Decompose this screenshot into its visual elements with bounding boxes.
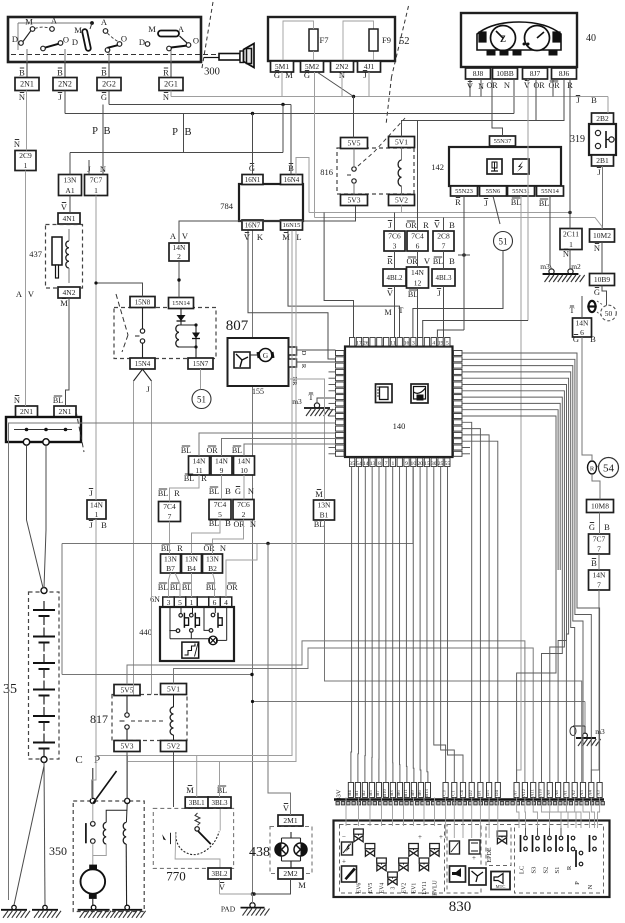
svg-text:9: 9 (220, 466, 224, 475)
svg-text:55N23: 55N23 (455, 188, 473, 195)
wire: 7C4-6 top (417, 121, 419, 232)
wire: diagonal to far left ground (14, 766, 44, 905)
svg-text:BL: BL (182, 583, 192, 592)
770 internal wires (175, 832, 220, 869)
connector 2G2 (97, 62, 121, 102)
connector 13N B1 (314, 489, 335, 529)
svg-text:B: B (591, 558, 597, 568)
svg-text:B6: B6 (417, 790, 422, 796)
svg-text:N: N (594, 243, 600, 253)
svg-text:BL: BL (184, 474, 194, 483)
ground bottom left 2 (32, 905, 61, 918)
svg-text:B: B (101, 520, 107, 530)
pump relay icon (450, 841, 460, 854)
wire: 15N7 to node 51 (200, 369, 202, 390)
svg-text:1: 1 (392, 461, 395, 467)
350 coil 1 (103, 822, 106, 844)
switch contact set 1 (12, 16, 69, 51)
wire: 2G1 to light bus (170, 91, 172, 97)
svg-text:2C8: 2C8 (437, 232, 450, 241)
830 switch sub-box (515, 825, 604, 894)
wire: battery 35 bottom to ground (44, 763, 45, 906)
svg-text:N: N (587, 884, 594, 889)
svg-text:770: 770 (166, 869, 186, 884)
svg-text:B: B (103, 126, 110, 137)
svg-text:7C4: 7C4 (163, 502, 176, 511)
svg-text:6: 6 (213, 598, 217, 607)
svg-text:B: B (604, 522, 610, 532)
svg-text:P: P (172, 127, 178, 138)
350 switch (90, 798, 95, 803)
440 blower resistor icon (182, 642, 199, 658)
svg-text:G: G (594, 287, 600, 297)
ECU bottom fan to 830 B-block (350, 467, 353, 783)
wire: fork right down (151, 381, 153, 695)
svg-text:+: + (418, 833, 422, 841)
svg-text:2: 2 (242, 510, 246, 519)
wire: 7C4-7 to 13N-B7 (169, 522, 171, 555)
svg-text:EV5: EV5 (368, 883, 374, 894)
svg-text:OR: OR (226, 583, 238, 592)
switch N (593, 836, 597, 840)
svg-text:B: B (449, 256, 455, 266)
wire: 14N-7 down to 830 A4 (591, 590, 599, 783)
svg-text:26: 26 (363, 340, 369, 346)
svg-text:1: 1 (95, 510, 99, 519)
svg-text:G: G (274, 70, 280, 80)
wire: ECU left to 14N-9 (222, 439, 336, 457)
relay 817 contact (125, 713, 129, 717)
svg-text:A9: A9 (546, 789, 551, 795)
350 coil 2 (123, 822, 126, 844)
svg-text:14N: 14N (593, 571, 607, 580)
svg-text:D: D (12, 34, 18, 44)
svg-text:35: 35 (349, 461, 355, 467)
icon lightning (513, 159, 529, 174)
svg-text:A1: A1 (65, 186, 74, 195)
connector 55N23 (451, 186, 478, 196)
lamp unit 438 (249, 803, 312, 890)
svg-text:817: 817 (90, 712, 108, 726)
wire: 14N-1 down to CP switch (92, 519, 97, 799)
svg-text:4N2: 4N2 (63, 288, 76, 297)
svg-text:B13: B13 (424, 788, 429, 796)
svg-text:N: N (504, 80, 510, 90)
wire: 16N15-M down to bus B (288, 231, 400, 338)
svg-text:8J8: 8J8 (473, 69, 484, 78)
bus543 left end down to bus674 (61, 544, 63, 675)
svg-text:807: 807 (226, 318, 249, 334)
438 lamp left (275, 843, 288, 856)
svg-text:B5: B5 (368, 790, 373, 796)
svg-text:13N: 13N (64, 175, 78, 184)
wire: 14N-11 to 7C4-7 (170, 475, 200, 502)
830 middle sub-box (447, 825, 486, 894)
svg-text:M: M (148, 24, 156, 34)
wire: 5V3 817 to 350 (126, 752, 128, 800)
svg-text:B: B (225, 486, 231, 496)
ECU bottom pins 12-14 to C-block (434, 467, 446, 783)
svg-text:R: R (566, 865, 573, 870)
switch contact set 2 (72, 17, 127, 52)
svg-text:Z: Z (500, 34, 506, 44)
light bus y=217.5 to 10M2 (315, 218, 603, 230)
svg-text:16N4: 16N4 (284, 176, 300, 184)
connector 14N 10 (232, 446, 255, 475)
junction (281, 103, 284, 106)
switch P (579, 851, 583, 855)
svg-text:V: V (434, 220, 441, 230)
svg-text:G: G (235, 486, 241, 496)
fuse F9 (369, 29, 378, 51)
key symbol 300 (202, 2, 255, 78)
connector 7C7 1 (85, 164, 108, 196)
svg-text:55N14: 55N14 (541, 188, 559, 195)
switch LC (524, 836, 528, 840)
wire: 16N15-M down to 3BL1 (96, 231, 292, 756)
svg-text:2: 2 (177, 252, 181, 261)
svg-text:BL: BL (539, 199, 549, 208)
relay 807 contact (140, 329, 144, 333)
svg-text:A2: A2 (571, 789, 576, 795)
svg-text:C3: C3 (442, 790, 447, 796)
svg-text:A12: A12 (521, 788, 526, 797)
wire: 14N6 down right side to sensor 54 (582, 337, 592, 461)
svg-text:830: 830 (449, 899, 472, 915)
svg-text:2B1: 2B1 (596, 156, 609, 165)
fusebox internal wires (283, 21, 314, 61)
svg-text:R: R (174, 488, 180, 498)
ground m3 m2 (540, 262, 584, 282)
svg-text:EV4: EV4 (380, 883, 386, 894)
indicator lights (479, 32, 486, 42)
svg-text:55N6: 55N6 (486, 188, 501, 195)
svg-text:M: M (25, 17, 33, 27)
svg-text:51: 51 (197, 395, 206, 405)
connector 2C8 7 (433, 220, 455, 251)
svg-text:N: N (14, 139, 20, 149)
wire: 155-NR to 13N-B1 (289, 379, 325, 500)
connector 4N2 (58, 287, 80, 308)
svg-text:G: G (101, 92, 107, 102)
connector 2N2 (331, 61, 354, 72)
svg-text:2N1: 2N1 (20, 407, 33, 416)
svg-text:G: G (589, 522, 595, 532)
icon module (411, 384, 428, 403)
svg-text:A7: A7 (513, 789, 518, 795)
sensor node B 54 (588, 458, 619, 478)
svg-text:19: 19 (438, 340, 444, 346)
830 solenoid valves EV6..EVLU (354, 829, 443, 896)
wire: 7C6-3 top to bus212 (394, 213, 396, 232)
ground under 350 motor (78, 909, 110, 911)
svg-text:LC: LC (519, 866, 526, 874)
svg-text:4N1: 4N1 (63, 214, 76, 223)
svg-text:A11: A11 (529, 788, 534, 796)
ECU 140 bottom pins (349, 458, 450, 467)
wire: bus to 16N1 (252, 114, 254, 175)
fuse box 52 (268, 6, 410, 125)
tachometer gauge (525, 26, 550, 51)
connector 8J7 (523, 68, 548, 79)
wire: 16N7-K down to bus C (248, 231, 336, 360)
connector 10M8 (587, 500, 614, 513)
svg-text:5V1: 5V1 (167, 685, 180, 694)
svg-text:B: B (449, 220, 455, 230)
wire: 13N-A1 top (69, 153, 71, 175)
bus y=104.5 (109, 104, 291, 106)
wire: 16N4 branch to bus 212.5 (296, 158, 309, 213)
svg-text:A: A (101, 17, 108, 27)
svg-text:3: 3 (412, 340, 415, 346)
relay 816 coil (398, 160, 401, 186)
svg-text:15N7: 15N7 (193, 360, 209, 368)
svg-text:B7: B7 (375, 790, 380, 796)
770 wiper arm (195, 827, 199, 831)
svg-text:11: 11 (390, 340, 396, 346)
wire: 7C7-1 down to 14N-1 (95, 196, 97, 501)
wire: 55N31 down to 830 A7 (517, 196, 521, 783)
svg-text:5V5: 5V5 (121, 686, 134, 695)
wire: 14N12 to ECU (417, 288, 419, 338)
svg-text:5: 5 (218, 510, 222, 519)
relay 817 (90, 684, 187, 752)
svg-text:BL: BL (158, 583, 168, 592)
wire: 5V2 817 down to 770 (173, 752, 175, 808)
svg-text:N: N (14, 395, 20, 405)
wire: 2N2 down to bus (64, 91, 66, 114)
wire: 7C7-1 tops (88, 160, 90, 175)
svg-text:13N: 13N (206, 554, 220, 563)
svg-text:10B9: 10B9 (594, 275, 611, 284)
svg-text:10BB: 10BB (496, 69, 514, 78)
svg-text:V: V (244, 232, 251, 242)
light bus y=96.5 (171, 96, 608, 98)
fuse F7 (309, 29, 318, 51)
relay 807 diode 2 (195, 325, 197, 358)
svg-text:1: 1 (569, 240, 573, 249)
svg-text:P: P (574, 881, 581, 885)
connector 7C6 3 (384, 220, 405, 251)
fan motor unit 155 (228, 338, 308, 396)
component 319 (570, 95, 616, 229)
svg-text:R: R (455, 197, 461, 207)
junction (251, 700, 254, 703)
junction (251, 892, 255, 896)
connector 8J8 (466, 68, 491, 79)
svg-text:A: A (170, 231, 177, 241)
svg-text:2G2: 2G2 (102, 80, 116, 89)
svg-text:BL: BL (511, 198, 521, 207)
svg-text:BL: BL (232, 446, 242, 455)
830 EPDE sub-box (486, 825, 511, 866)
relay 807 diode top (180, 309, 182, 325)
svg-text:52: 52 (399, 36, 410, 47)
connector 4J1 (358, 61, 381, 72)
svg-text:OR: OR (406, 257, 418, 266)
wire: 15N4 fork J (134, 369, 143, 381)
svg-text:12: 12 (414, 278, 422, 287)
svg-text:40: 40 (586, 33, 596, 44)
svg-text:R: R (387, 256, 393, 266)
svg-text:7: 7 (168, 512, 172, 521)
junction block with connectors 2N1 2N1 (6, 395, 84, 452)
svg-text:7C7: 7C7 (593, 535, 606, 544)
ECU right pins 11-16 to C-block D pins (462, 422, 472, 782)
svg-text:N: N (248, 486, 254, 496)
switch contact set 3 (139, 24, 199, 51)
wire: to PAD ground (252, 894, 254, 903)
svg-text:300: 300 (204, 67, 220, 78)
svg-text:13N: 13N (318, 501, 332, 510)
svg-text:3: 3 (391, 886, 397, 889)
svg-text:35: 35 (3, 682, 17, 697)
svg-text:A5: A5 (579, 789, 584, 795)
svg-text:D2: D2 (468, 789, 473, 795)
svg-text:1: 1 (24, 161, 28, 170)
connector 14N 1 (87, 488, 107, 530)
svg-text:13: 13 (370, 461, 376, 467)
svg-text:51: 51 (499, 237, 508, 247)
svg-text:V: V (61, 202, 68, 212)
wire: bus to 2C11 (569, 213, 571, 229)
svg-text:4BL3: 4BL3 (436, 274, 452, 282)
440 internal wires (169, 607, 171, 639)
svg-text:4: 4 (224, 598, 228, 607)
svg-text:8J7: 8J7 (530, 69, 541, 78)
svg-text:15: 15 (424, 461, 430, 467)
wire: ECU left to 14N-11 (199, 433, 336, 456)
svg-text:350: 350 (49, 844, 67, 858)
wire: 4BL3 to ECU (443, 286, 445, 338)
svg-text:15N4: 15N4 (135, 360, 151, 368)
pump motor icon (469, 868, 486, 885)
junction (90, 21, 94, 25)
svg-text:S3: S3 (531, 867, 538, 874)
svg-text:S2: S2 (543, 867, 550, 874)
svg-text:R: R (590, 466, 595, 473)
svg-text:B: B (225, 518, 231, 528)
svg-text:OR: OR (203, 544, 215, 553)
connector 14N 2 (169, 231, 189, 261)
wire: 14N-2 to 15N14 (178, 261, 180, 298)
svg-text:B3: B3 (389, 790, 394, 796)
wire: 2C11 to ground m2 (569, 250, 571, 270)
svg-text:14N: 14N (238, 456, 252, 465)
svg-text:2N1: 2N1 (20, 80, 34, 89)
svg-text:EV1: EV1 (412, 883, 418, 894)
svg-text:25: 25 (438, 461, 444, 467)
heater control unit 440 (139, 607, 234, 662)
svg-text:B9: B9 (410, 790, 415, 796)
svg-text:M: M (298, 880, 306, 890)
switch S2 (548, 836, 552, 840)
relay 807 (114, 297, 249, 370)
svg-text:55N31: 55N31 (512, 188, 530, 195)
svg-text:10: 10 (411, 461, 417, 467)
svg-text:D: D (72, 37, 78, 47)
brake fluid icon (342, 866, 357, 882)
svg-text:B4: B4 (187, 564, 196, 573)
svg-text:B2: B2 (208, 564, 217, 573)
svg-text:14N: 14N (173, 243, 187, 252)
switch S3 (536, 836, 540, 840)
wire: 2C8-7 top to bus217 (443, 218, 445, 232)
svg-text:N: N (19, 92, 25, 102)
connector strip 6N (150, 583, 238, 607)
770 resistive track (176, 832, 219, 855)
svg-text:V: V (387, 288, 394, 298)
830 internal wiring C block (445, 798, 447, 839)
svg-text:+: + (472, 854, 476, 862)
440 lamp (209, 636, 218, 645)
svg-text:M: M (315, 489, 323, 499)
svg-text:N: N (220, 543, 226, 553)
svg-text:30: 30 (431, 461, 437, 467)
speedometer gauge (491, 26, 516, 51)
svg-text:O: O (63, 35, 69, 45)
svg-text:F7: F7 (320, 35, 329, 45)
junction (252, 892, 256, 896)
junction (251, 112, 254, 115)
svg-text:A: A (51, 16, 58, 26)
svg-text:EV11: EV11 (422, 881, 428, 894)
icon glow plug (487, 159, 502, 174)
connector 10BB (493, 68, 518, 79)
svg-text:8: 8 (378, 461, 381, 467)
svg-text:V: V (424, 256, 431, 266)
wire: fusebox 2N2 down (341, 72, 343, 97)
770 level sensor icon (162, 834, 166, 840)
svg-text:M: M (285, 70, 293, 80)
svg-text:10: 10 (240, 466, 248, 475)
wire: 5M2 diagonal to 5V5 wire (317, 72, 354, 97)
svg-text:A4: A4 (587, 789, 592, 795)
svg-text:3BL3: 3BL3 (212, 799, 228, 807)
svg-text:MTC: MTC (496, 884, 506, 889)
fuel gauge sender 770 (153, 808, 233, 883)
svg-text:V: V (524, 80, 531, 90)
svg-text:BL: BL (53, 396, 63, 405)
svg-text:5: 5 (178, 598, 182, 607)
wire: 55N6 to node 51 (493, 196, 500, 224)
wire: 5V3 left to 14N-2 (179, 206, 356, 243)
svg-text:10M8: 10M8 (591, 502, 609, 511)
wire: 13N-B2 to 6N pin6 (213, 573, 215, 597)
svg-text:BL: BL (408, 290, 418, 299)
svg-text:M: M (186, 785, 194, 795)
connector 2N1 (15, 62, 39, 102)
bus y=120.5 cluster to 7C4-6 (402, 79, 565, 137)
wire: 7C4-5 to 13N-B4 (192, 520, 221, 555)
svg-text:2M2: 2M2 (283, 869, 297, 878)
830 internal wiring B block (345, 798, 347, 827)
svg-text:7C4: 7C4 (411, 232, 424, 241)
svg-text:B10: B10 (382, 788, 387, 796)
pressure warning icon (342, 842, 353, 855)
bus y=701.5 across (253, 701, 586, 703)
wire: 4BL2 to ECU (394, 286, 396, 338)
wire: 5V2 down (401, 206, 403, 213)
350 motor (81, 869, 106, 894)
connector 55N6 (480, 186, 507, 196)
svg-text:8J6: 8J6 (559, 69, 570, 78)
svg-text:V: V (28, 289, 35, 299)
component 784 (220, 163, 303, 242)
bus y=152.5 (70, 152, 283, 154)
wire: 16N15-L down to 3BL3 (127, 231, 296, 762)
ECU 140 top pins (350, 338, 451, 347)
